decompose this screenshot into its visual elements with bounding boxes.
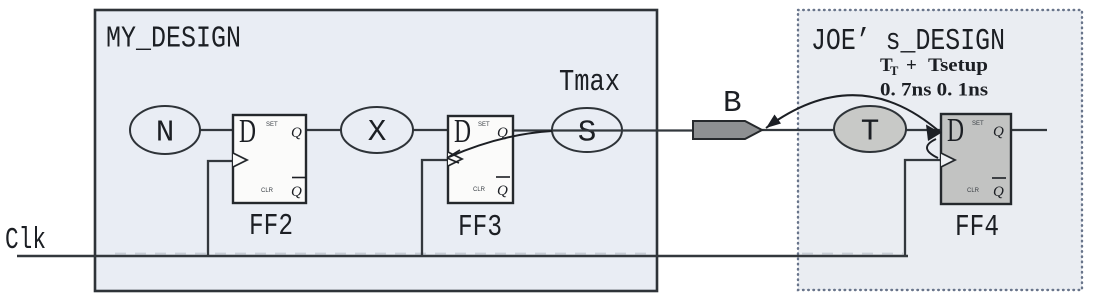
arrowhead at B [766,115,781,129]
svg-text:FF4: FF4 [955,210,999,245]
wire FF2 Q to X [306,129,341,131]
svg-text:0. 7ns 0. 1ns: 0. 7ns 0. 1ns [880,80,988,101]
svg-text:Q: Q [993,124,1004,140]
box MY_DESIGN [95,10,657,291]
svg-text:Clk: Clk [5,223,46,258]
wire arc B to FF4 [766,95,941,133]
wire X to FF3 [413,129,448,131]
node T ellipse [834,106,906,152]
wire clock riser FF4 [905,160,941,256]
wire arc FF4 setup [927,139,938,158]
svg-text:CLR: CLR [967,188,980,194]
svg-text:CLR: CLR [473,187,486,193]
svg-text:JOE’ s_DESIGN: JOE’ s_DESIGN [811,24,1005,59]
svg-text:SET: SET [478,122,490,128]
flip-flop FF3 body [448,113,513,203]
svg-text:FF2: FF2 [249,209,293,244]
wire clock riser FF3 [422,160,448,256]
svg-text:D: D [947,112,964,149]
svg-text:D: D [239,113,256,150]
svg-text:FF3: FF3 [458,210,502,245]
svg-text:CLR: CLR [261,188,274,194]
flip-flop FF2 body [233,113,306,203]
arrowhead at FF4 D [926,125,941,142]
svg-text:T: T [890,64,899,78]
svg-text:SET: SET [266,122,278,128]
wire clock line [17,255,908,258]
wire B to T [762,129,836,131]
box JOE's_DESIGN [798,10,1082,290]
flip-flop FF4 body [941,112,1011,204]
svg-text:S: S [578,116,597,151]
svg-text:Q: Q [497,183,508,199]
svg-text:T: T [861,115,880,150]
wire T to FF4 [904,129,941,131]
svg-text:+: + [906,55,917,76]
wire N to FF2 [200,129,233,131]
svg-text:D: D [454,113,471,150]
node S ellipse [552,108,622,152]
svg-text:MY_DESIGN: MY_DESIGN [106,22,241,57]
svg-text:SET: SET [972,121,984,127]
wire clock riser FF2 [208,161,233,256]
svg-text:Q: Q [291,125,302,141]
svg-text:Q: Q [291,184,302,200]
svg-text:Tmax: Tmax [559,65,620,100]
svg-text:Tsetup: Tsetup [928,55,988,76]
svg-text:X: X [368,115,387,150]
arrowhead at FF3 clock [447,150,460,163]
svg-text:B: B [723,86,742,121]
node N ellipse [130,106,200,154]
wire gray dashed overlay right [802,253,903,255]
wire arc S to FF3 clock [449,131,552,157]
node X ellipse [341,107,413,153]
svg-text:N: N [156,116,175,151]
wire FF3 Q through S to B [513,129,693,131]
wire FF4 Q output [1011,129,1047,131]
component B bus arrow [693,121,762,139]
svg-text:Q: Q [993,184,1004,200]
wire gray dashed overlay left [115,253,650,255]
